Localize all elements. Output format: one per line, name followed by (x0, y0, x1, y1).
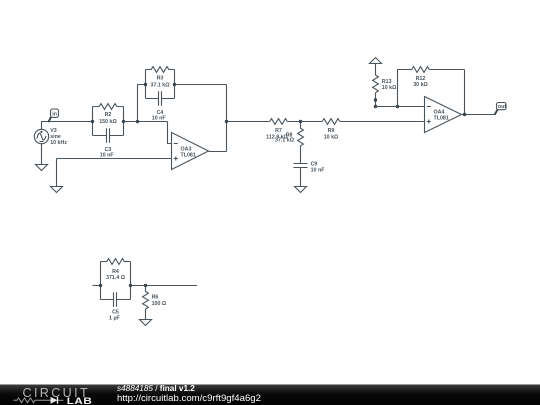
svg-text:TL081: TL081 (181, 152, 196, 158)
junction (225, 120, 228, 123)
svg-text:out: out (498, 104, 506, 110)
junction (374, 98, 377, 101)
wire (175, 84, 227, 86)
wire (209, 151, 227, 153)
svg-text:150 kΩ: 150 kΩ (99, 119, 117, 125)
junction (144, 83, 147, 86)
voltage source V3 (34, 128, 67, 146)
resistor R13 (373, 75, 398, 93)
op-amp OA3 (172, 133, 209, 170)
wire (429, 69, 464, 71)
resistor R6 (143, 286, 167, 310)
wire (145, 70, 147, 99)
junction (144, 284, 147, 287)
svg-text:37.1 kΩ: 37.1 kΩ (275, 138, 295, 144)
resistor R9 (322, 119, 340, 141)
svg-text:37.1 kΩ: 37.1 kΩ (151, 82, 171, 88)
junction (463, 113, 466, 116)
svg-text:R9: R9 (328, 128, 335, 134)
wire (174, 70, 176, 99)
svg-text:10 nF: 10 nF (152, 116, 167, 122)
wire (92, 107, 94, 136)
op-amp OA4 (425, 97, 462, 133)
svg-text:R6: R6 (152, 294, 159, 300)
svg-text:R2: R2 (105, 112, 112, 118)
node out flag (495, 103, 507, 115)
capacitor C9 (294, 162, 326, 174)
wire (42, 122, 93, 130)
svg-text:R3: R3 (157, 75, 164, 81)
wire (398, 70, 412, 107)
junction (99, 284, 102, 287)
capacitor C3 (93, 128, 124, 158)
wire (464, 70, 466, 115)
resistor R2 (93, 104, 124, 126)
wire (300, 146, 302, 164)
ground (51, 159, 63, 193)
wire (93, 285, 101, 287)
svg-text:10 nF: 10 nF (100, 153, 115, 159)
wire (57, 158, 172, 160)
svg-text:in: in (52, 112, 57, 118)
wire (131, 285, 198, 287)
resistor R4 (101, 259, 131, 281)
wire (100, 262, 102, 300)
wire (123, 107, 125, 136)
junction (374, 105, 377, 108)
wire (226, 85, 228, 152)
footer bar (0, 385, 540, 405)
node in flag (48, 109, 58, 122)
capacitor C5 (101, 292, 131, 321)
resistor R7 (266, 119, 288, 141)
logo resistor zigzag and diode (14, 397, 64, 404)
svg-text:http://circuitlab.com/c9rft9gf: http://circuitlab.com/c9rft9gf4a6g2 (117, 393, 261, 404)
wire (124, 121, 168, 123)
wire (340, 121, 425, 123)
resistor R3 (146, 67, 175, 89)
wire (287, 121, 322, 123)
junction (173, 83, 176, 86)
power supply arrow (370, 58, 382, 76)
wire (168, 122, 172, 144)
svg-text:s4884185 / final v1.2: s4884185 / final v1.2 (117, 384, 195, 393)
svg-text:R4: R4 (112, 269, 119, 275)
svg-text:10 kΩ: 10 kΩ (324, 134, 339, 140)
resistor R8 (275, 122, 303, 146)
junction (136, 120, 139, 123)
svg-text:100 Ω: 100 Ω (152, 301, 167, 307)
junction (129, 284, 132, 287)
svg-text:LAB: LAB (67, 397, 92, 405)
ground (295, 168, 307, 193)
svg-text:1 µF: 1 µF (109, 316, 120, 322)
capacitor C4 (146, 91, 175, 122)
wire (375, 93, 377, 107)
wire (138, 85, 146, 122)
wire (130, 262, 132, 300)
resistor R12 (412, 67, 430, 89)
junction (91, 120, 94, 123)
ground (140, 309, 152, 326)
wire (376, 106, 425, 108)
svg-text:R7: R7 (275, 128, 282, 134)
svg-text:TL081: TL081 (434, 116, 449, 122)
wire (227, 121, 270, 123)
wire (462, 114, 496, 116)
svg-text:10 nF: 10 nF (311, 167, 326, 173)
svg-text:30 kΩ: 30 kΩ (413, 82, 428, 88)
svg-text:R12: R12 (416, 76, 426, 82)
svg-text:371.4 Ω: 371.4 Ω (106, 275, 126, 281)
junction (299, 120, 302, 123)
junction (122, 120, 125, 123)
svg-text:10 kHz: 10 kHz (50, 140, 67, 146)
svg-text:10 kΩ: 10 kΩ (382, 85, 397, 91)
ground (36, 144, 48, 171)
junction (396, 105, 399, 108)
